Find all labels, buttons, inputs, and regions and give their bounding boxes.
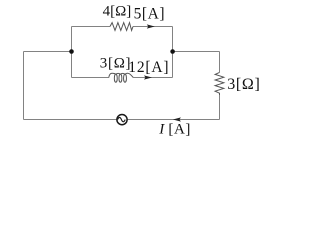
svg-text:I [A]: I [A]: [158, 121, 191, 137]
wire: outer left horizontal to node A: [24, 51, 72, 53]
node B (right junction dot): [170, 49, 175, 54]
arrow: current 12A on middle branch: [144, 75, 152, 79]
wire: top branch: [72, 26, 173, 28]
AC source V1: [117, 115, 127, 125]
resistor R2 3 ohm (right vertical zigzag): [215, 72, 224, 95]
wire: right vertical column: [219, 52, 221, 120]
svg-text:3[Ω]: 3[Ω]: [227, 76, 260, 93]
node A (left junction dot): [69, 49, 74, 54]
svg-text:3[Ω]: 3[Ω]: [100, 56, 131, 72]
wire: bottom horizontal: [24, 119, 220, 121]
wire: outer left vertical: [23, 52, 25, 120]
arrow: current 5A on top branch: [147, 24, 155, 28]
svg-text:4[Ω]: 4[Ω]: [103, 3, 132, 19]
inductor L1 3 ohm (coil): [109, 73, 134, 82]
wire: middle branch: [72, 77, 173, 79]
arrow: current I on bottom wire (pointing left): [173, 117, 181, 121]
svg-text:12[A]: 12[A]: [128, 59, 169, 76]
wire: left branch vertical: [71, 27, 73, 78]
wire: right branch vertical: [172, 27, 174, 78]
wire: right horizontal to resistor column: [173, 51, 220, 53]
svg-text:5[A]: 5[A]: [134, 5, 165, 22]
resistor R1 4 ohm (top zigzag): [110, 23, 133, 31]
